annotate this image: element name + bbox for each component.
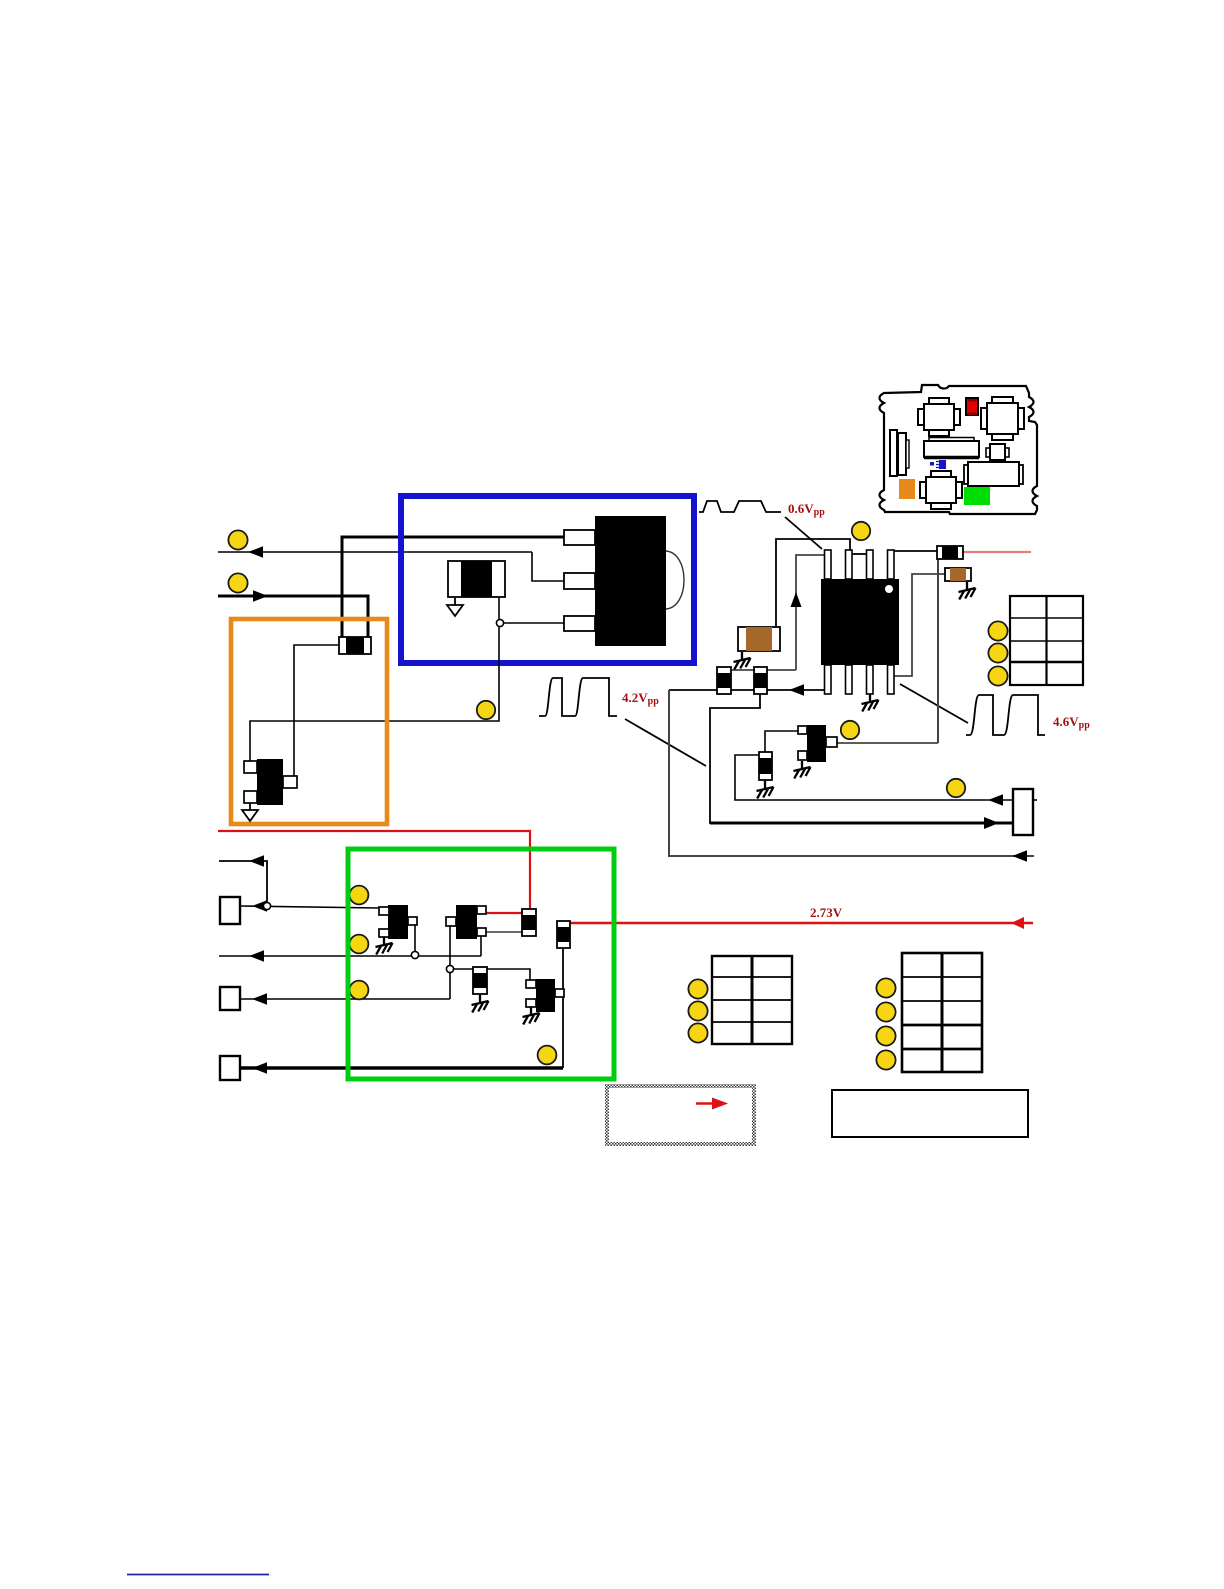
- svg-text:2.73V: 2.73V: [810, 905, 843, 920]
